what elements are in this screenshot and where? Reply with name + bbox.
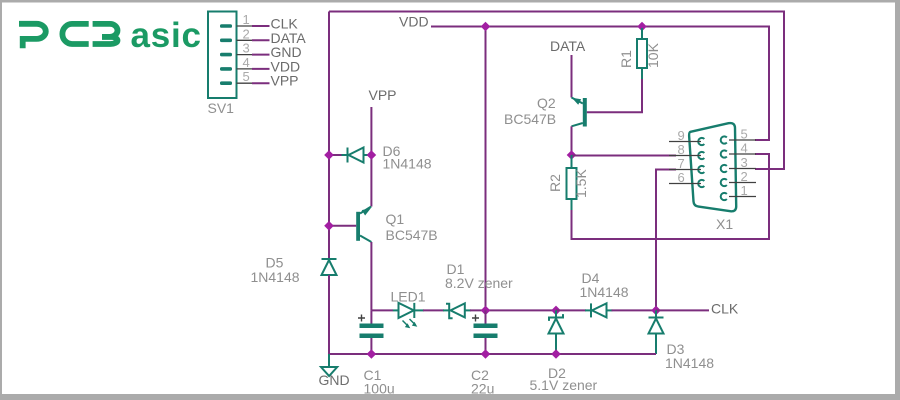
svg-text:GND: GND bbox=[319, 372, 350, 388]
svg-text:VPP: VPP bbox=[369, 87, 397, 103]
wire X1 pin7 to CLK rail bbox=[656, 170, 676, 311]
svg-text:1N4148: 1N4148 bbox=[665, 355, 714, 371]
SV1 net names bbox=[271, 16, 307, 89]
svg-text:22u: 22u bbox=[471, 381, 494, 397]
wire R1 to Q2 base bbox=[587, 79, 642, 112]
LED LED1 bbox=[399, 303, 418, 328]
svg-text:2: 2 bbox=[243, 26, 250, 41]
zener diode D2 bbox=[549, 310, 564, 354]
SV1 pin numbers bbox=[243, 12, 250, 84]
svg-text:CLK: CLK bbox=[711, 301, 739, 317]
junction bbox=[481, 306, 491, 316]
wire R2 to X1 pin4 bbox=[572, 154, 770, 239]
svg-text:2: 2 bbox=[741, 169, 748, 184]
SV1 pin stubs bbox=[237, 26, 265, 83]
wire D4 anode lead bbox=[607, 309, 613, 311]
svg-text:1: 1 bbox=[741, 183, 748, 198]
wire CLK stub bbox=[656, 309, 709, 311]
svg-text:6: 6 bbox=[678, 170, 685, 185]
svg-text:8: 8 bbox=[678, 142, 685, 157]
junction bbox=[324, 150, 334, 160]
junction bbox=[551, 306, 561, 316]
svg-text:3: 3 bbox=[243, 41, 250, 56]
bottom rail wire bbox=[329, 353, 656, 355]
logo PCBasic bbox=[19, 24, 117, 48]
diode D5 bbox=[322, 259, 337, 275]
svg-text:7: 7 bbox=[678, 156, 685, 171]
junction bbox=[637, 22, 647, 32]
wire D5 to bottom rail bbox=[328, 275, 330, 354]
svg-text:10K: 10K bbox=[645, 42, 661, 68]
svg-text:1.5K: 1.5K bbox=[573, 169, 589, 198]
X1 right pin stubs bbox=[729, 140, 756, 197]
zener diode D1 bbox=[446, 303, 465, 318]
svg-text:1N4148: 1N4148 bbox=[251, 269, 300, 285]
SV1 pin wires bbox=[252, 26, 270, 83]
svg-text:5: 5 bbox=[243, 69, 250, 84]
svg-text:5.1V zener: 5.1V zener bbox=[530, 377, 598, 393]
svg-text:Q2: Q2 bbox=[537, 95, 556, 111]
diode D6 bbox=[341, 148, 371, 163]
wire D1 to node bbox=[470, 309, 556, 311]
svg-text:1: 1 bbox=[243, 12, 250, 27]
ground symbol bbox=[321, 367, 337, 376]
wire VPP down bbox=[370, 107, 372, 207]
svg-text:BC547B: BC547B bbox=[504, 111, 556, 127]
diode D4 bbox=[591, 303, 607, 317]
svg-text:100u: 100u bbox=[364, 381, 395, 397]
junction bbox=[481, 349, 491, 359]
svg-text:VPP: VPP bbox=[271, 73, 299, 89]
wire top GND net bbox=[329, 12, 784, 170]
transistor Q1 bbox=[356, 207, 371, 243]
wire DATA to Q2 emitter bbox=[571, 55, 573, 98]
junction bbox=[567, 150, 577, 160]
junction bbox=[651, 306, 661, 316]
X1 left pin contacts bbox=[698, 138, 704, 187]
connector SV1 bbox=[208, 12, 237, 99]
transistor Q2 bbox=[572, 98, 587, 127]
svg-text:SV1: SV1 bbox=[208, 100, 235, 116]
svg-text:3: 3 bbox=[741, 155, 748, 170]
wire node to X1 pin8 bbox=[572, 155, 677, 157]
svg-text:4: 4 bbox=[243, 55, 250, 70]
svg-text:VDD: VDD bbox=[399, 14, 429, 30]
wire Q1 collector down bbox=[370, 242, 372, 310]
connector X1 body bbox=[689, 123, 736, 211]
wire node to D4 bbox=[556, 309, 586, 311]
wire Q2 collector down bbox=[571, 126, 573, 155]
junction bbox=[367, 349, 377, 359]
capacitor C2 bbox=[472, 310, 498, 354]
svg-text:5: 5 bbox=[741, 127, 748, 142]
svg-text:1N4148: 1N4148 bbox=[580, 284, 629, 300]
junction bbox=[324, 221, 334, 231]
svg-text:1N4148: 1N4148 bbox=[383, 156, 432, 172]
wire Q1 base bbox=[329, 225, 356, 227]
wire D1 cathode lead bbox=[443, 309, 449, 311]
wire D4 to CLK node bbox=[612, 309, 657, 311]
junction bbox=[551, 349, 561, 359]
junction bbox=[481, 22, 491, 32]
wire VDD to D1 node bbox=[485, 27, 487, 311]
svg-text:asic: asic bbox=[131, 16, 202, 55]
X1 left pin numbers bbox=[678, 128, 685, 185]
wire LED1 to D1 bbox=[414, 309, 424, 311]
junction bbox=[367, 150, 377, 160]
wire D1 anode lead bbox=[465, 309, 471, 311]
main CLK rail bbox=[371, 309, 393, 311]
svg-text:8.2V zener: 8.2V zener bbox=[445, 275, 513, 291]
diode D3 bbox=[649, 310, 664, 354]
svg-text:4: 4 bbox=[741, 141, 748, 156]
wire VDD net bbox=[431, 27, 769, 141]
svg-text:9: 9 bbox=[678, 128, 685, 143]
svg-text:DATA: DATA bbox=[550, 38, 586, 54]
svg-text:BC547B: BC547B bbox=[386, 227, 438, 243]
svg-text:LED1: LED1 bbox=[391, 289, 426, 305]
X1 left pin stubs bbox=[669, 142, 701, 184]
X1 right pin contacts bbox=[721, 136, 727, 200]
svg-text:X1: X1 bbox=[716, 216, 733, 232]
X1 right pin numbers bbox=[741, 127, 748, 199]
wire D4 cathode lead bbox=[585, 309, 591, 311]
svg-text:R1: R1 bbox=[618, 50, 634, 68]
capacitor C1 bbox=[358, 310, 384, 354]
wire LED1 anode lead bbox=[393, 309, 399, 311]
resistor R2 bbox=[567, 155, 577, 210]
resistor R1 bbox=[637, 28, 647, 79]
svg-text:Q1: Q1 bbox=[386, 211, 405, 227]
wire GND vertical line bbox=[328, 12, 330, 259]
svg-text:R2: R2 bbox=[547, 174, 563, 192]
wire to ground bbox=[328, 354, 330, 367]
